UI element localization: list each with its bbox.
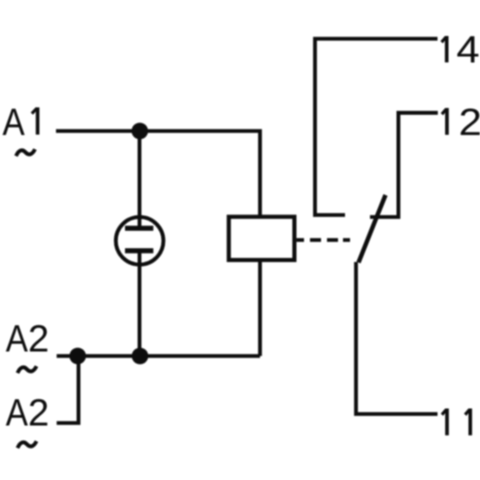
svg-text:A: A <box>6 317 28 360</box>
svg-text:2: 2 <box>28 319 49 361</box>
svg-text:A: A <box>6 391 28 434</box>
svg-text:2: 2 <box>459 102 480 144</box>
svg-text:2: 2 <box>28 393 49 435</box>
svg-text:4: 4 <box>456 29 479 71</box>
svg-text:A: A <box>3 101 25 144</box>
